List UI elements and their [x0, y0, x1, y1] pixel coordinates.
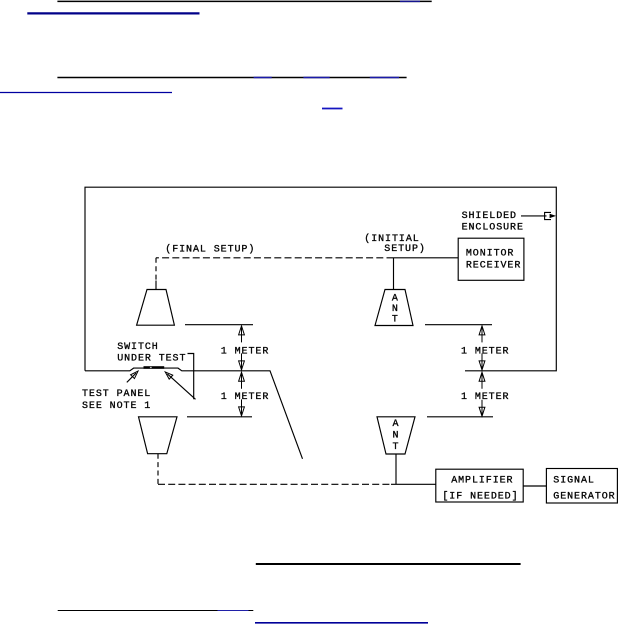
label (INITIAL SETUP)	[364, 233, 426, 255]
pointer arrow to enclosure wall	[521, 212, 556, 219]
test bench line with switch platform and diagonal	[85, 368, 303, 459]
switch under test (filled bar)	[144, 366, 165, 369]
page rule top (black)	[57, 0, 431, 2]
monitor receiver box U1	[458, 238, 524, 280]
hyperlink underline short center	[322, 108, 343, 110]
pointer arrow to switch (left)	[127, 369, 140, 382]
label TEST PANEL SEE NOTE 1	[82, 389, 151, 412]
reference line right of final antenna	[185, 324, 253, 326]
dashed wire (final setup feed)	[156, 258, 394, 290]
dimension arrow down (right bottom)	[479, 400, 485, 417]
dimension arrow up (right top)	[479, 326, 485, 343]
label SWITCH UNDER TEST	[117, 342, 186, 365]
dimension arrow up (left top)	[239, 326, 245, 343]
svg-text:T: T	[392, 315, 399, 326]
hyperlink underline segment on top rule	[400, 0, 420, 2]
dimension arrow up (left, below bench)	[239, 372, 245, 389]
svg-text:[IF NEEDED]: [IF NEEDED]	[442, 490, 518, 502]
svg-text:AMPLIFIER: AMPLIFIER	[451, 475, 513, 486]
svg-text:1 METER: 1 METER	[221, 392, 269, 403]
wire feed to amplifier	[391, 483, 436, 485]
label (FINAL SETUP)	[165, 244, 255, 256]
label 1 METER left upper	[221, 346, 269, 357]
amplifier box	[436, 469, 523, 502]
svg-text:1 METER: 1 METER	[221, 346, 269, 357]
svg-text:SEE NOTE 1: SEE NOTE 1	[82, 401, 151, 412]
label 1 METER right upper	[461, 346, 509, 357]
dimension arrow down (left bottom)	[239, 399, 245, 416]
dimension arrow down (left, to bench)	[239, 353, 245, 370]
wire down to initial antenna	[393, 258, 395, 290]
antenna initial setup (upper right horn) ANT	[375, 290, 413, 326]
dimension arrow down (right, to enclosure bottom)	[479, 353, 485, 370]
svg-text:A: A	[393, 419, 400, 430]
svg-text:SETUP): SETUP)	[384, 243, 426, 255]
antenna final setup (upper left horn)	[137, 290, 175, 326]
svg-text:T: T	[393, 442, 400, 453]
wire junction to monitor receiver	[394, 257, 459, 259]
svg-text:1 METER: 1 METER	[461, 346, 509, 357]
svg-text:UNDER TEST: UNDER TEST	[117, 354, 186, 365]
svg-text:SHIELDED: SHIELDED	[462, 211, 517, 222]
svg-text:1 METER: 1 METER	[461, 392, 509, 403]
hyperlink underline upper-left	[27, 12, 199, 14]
signal generator box	[546, 469, 617, 504]
label 1 METER left lower	[221, 392, 269, 403]
dashed feed from lower left antenna	[158, 454, 391, 485]
svg-text:GENERATOR: GENERATOR	[553, 491, 615, 502]
reference line right lower level	[427, 416, 493, 418]
label SHIELDED ENCLOSURE	[462, 211, 524, 233]
svg-text:N: N	[392, 304, 399, 315]
dimension arrow up (right, below enclosure bottom)	[479, 372, 485, 389]
svg-text:RECEIVER: RECEIVER	[466, 260, 521, 271]
bottom rule with link segment	[58, 610, 254, 612]
hyperlink underline bottom	[255, 622, 428, 624]
svg-text:ENCLOSURE: ENCLOSURE	[462, 222, 524, 233]
svg-text:TEST PANEL: TEST PANEL	[82, 389, 151, 400]
svg-text:SWITCH: SWITCH	[117, 342, 159, 353]
pointer arrow to switch (right)	[163, 370, 195, 399]
antenna lower right horn ANT	[377, 417, 415, 454]
reference line right of initial antenna	[425, 324, 492, 326]
bracket from label down to test panel	[188, 354, 194, 400]
svg-text:N: N	[393, 430, 400, 441]
svg-text:MONITOR: MONITOR	[466, 249, 514, 260]
label 1 METER right lower	[461, 392, 509, 403]
hyperlink underline left margin	[0, 92, 172, 94]
antenna lower left horn (transmit)	[139, 417, 178, 454]
wire amplifier to signal generator	[523, 485, 546, 487]
wire from lower right antenna to feed line	[395, 454, 397, 484]
page rule bottom (black)	[256, 563, 521, 565]
svg-text:(FINAL SETUP): (FINAL SETUP)	[165, 244, 255, 256]
shielded enclosure wall	[85, 187, 556, 371]
page rule second (black with link segments)	[57, 77, 406, 79]
svg-text:SIGNAL: SIGNAL	[553, 475, 595, 486]
reference line left lower level	[187, 416, 252, 418]
